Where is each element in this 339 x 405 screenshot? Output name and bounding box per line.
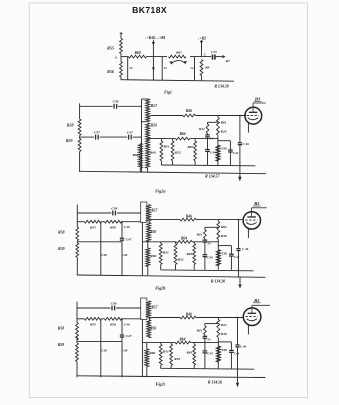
svg-text:R41: R41 bbox=[199, 127, 205, 131]
svg-text:R41: R41 bbox=[196, 232, 202, 236]
transformer shield box fig2c bbox=[141, 298, 147, 320]
svg-text:14: 14 bbox=[210, 136, 214, 140]
wire mid rail fig2a bbox=[80, 136, 94, 138]
resistor R64 fig2a bbox=[176, 137, 190, 140]
wire screen rail fig2c bbox=[142, 342, 175, 344]
wire mid rail fig2b bbox=[78, 241, 122, 243]
svg-text:C38: C38 bbox=[101, 349, 107, 353]
svg-text:R65: R65 bbox=[187, 145, 193, 149]
resistor R58 fig2c bbox=[76, 323, 79, 341]
capacitor C44 fig2a bbox=[229, 141, 231, 150]
wire grid tap hook fig2b bbox=[149, 220, 152, 224]
capacitor C38 dropper fig2b bbox=[100, 222, 102, 276]
svg-text:T30: T30 bbox=[221, 252, 227, 256]
wire grid rail fig2a bbox=[152, 115, 183, 117]
resistor R65 fig2a bbox=[194, 139, 196, 141]
svg-text:R50: R50 bbox=[150, 230, 156, 234]
inductor R60 fig2a bbox=[146, 142, 150, 168]
resistor R59 fig2c bbox=[76, 343, 79, 362]
capacitor 14 fig2a bbox=[207, 133, 209, 134]
svg-text:C47: C47 bbox=[127, 130, 133, 134]
svg-text:C38: C38 bbox=[101, 253, 107, 257]
resistor R56 fig2c bbox=[105, 317, 122, 320]
capacitor C12 left bbox=[127, 57, 129, 81]
resistor R46 fig2b bbox=[180, 218, 196, 221]
svg-text:C40: C40 bbox=[207, 256, 213, 260]
svg-text:B3: B3 bbox=[253, 298, 260, 303]
resistor R46 fig2c bbox=[180, 316, 196, 319]
inductor R50 fig2c bbox=[147, 320, 151, 338]
wire sub rail fig2c bbox=[161, 367, 255, 370]
wire grid tap hook fig2a bbox=[148, 116, 152, 120]
svg-text:C 46: C 46 bbox=[243, 142, 250, 146]
resistor R41 fig2b bbox=[204, 230, 207, 239]
svg-text:C58: C58 bbox=[113, 100, 119, 104]
wire screen rail fig2b bbox=[142, 241, 176, 243]
svg-text:R60: R60 bbox=[150, 151, 156, 155]
capacitor 14 fig2b bbox=[204, 239, 206, 240]
svg-text:14: 14 bbox=[207, 338, 211, 342]
svg-text:R55: R55 bbox=[107, 45, 114, 50]
svg-text:BK718X: BK718X bbox=[132, 5, 167, 15]
wire bottom rail fig2b bbox=[77, 275, 265, 277]
wire left vertical fig2c bbox=[76, 302, 78, 323]
svg-text:R46: R46 bbox=[186, 109, 192, 113]
svg-text:R55: R55 bbox=[90, 225, 96, 229]
resistor R52 fig2a bbox=[172, 139, 174, 141]
ground arrow fig2c bbox=[237, 377, 239, 383]
svg-text:R61: R61 bbox=[221, 225, 227, 229]
resistor R51 fig2c bbox=[160, 343, 162, 345]
capacitor C46b fig2c bbox=[237, 318, 239, 345]
wire grid lead fig2a bbox=[245, 115, 246, 117]
resistor R65 fig2c bbox=[193, 343, 195, 345]
wire C44 branch top fig2b bbox=[218, 245, 231, 247]
resistor R9 bbox=[200, 60, 203, 76]
wire R20 to coil fig2b bbox=[217, 239, 219, 249]
svg-text:R20: R20 bbox=[221, 129, 227, 133]
wire top rail fig2b bbox=[77, 212, 111, 214]
wire bottom rail fig1 bbox=[121, 80, 234, 82]
capacitor C38 dropper fig2c bbox=[100, 319, 102, 377]
resistor R51 fig2a bbox=[160, 139, 162, 141]
resistor R65 fig2b bbox=[193, 242, 195, 244]
svg-text:↓+B10–↓+B1: ↓+B10–↓+B1 bbox=[145, 36, 166, 40]
wire screen feed rail fig2c bbox=[77, 318, 84, 320]
capacitor C46 fig2b bbox=[238, 220, 240, 249]
svg-text:R65: R65 bbox=[187, 252, 193, 256]
svg-text:R41: R41 bbox=[196, 329, 202, 333]
capacitor C58 fig2a bbox=[113, 104, 115, 109]
wire left vertical bottom fig1 bbox=[120, 77, 122, 80]
wire bottom rail fig2c bbox=[77, 376, 265, 378]
resistor R55 fig2c bbox=[84, 317, 101, 320]
inductor R66 fig2c bbox=[146, 343, 148, 349]
svg-text:R51: R51 bbox=[163, 349, 169, 353]
svg-text:Fig2c: Fig2c bbox=[156, 381, 166, 386]
wire screen feed rail fig2b bbox=[77, 221, 84, 223]
wire +B10 branch lower bbox=[152, 57, 154, 81]
svg-text:Fig2a: Fig2a bbox=[155, 188, 165, 193]
svg-text:C40: C40 bbox=[124, 225, 130, 229]
wire grid rail fig2b bbox=[153, 219, 180, 221]
svg-text:R51: R51 bbox=[163, 251, 169, 255]
svg-text:R7: R7 bbox=[226, 59, 230, 63]
svg-text:R60: R60 bbox=[135, 51, 141, 55]
svg-text:C40: C40 bbox=[124, 322, 130, 326]
svg-text:R64: R64 bbox=[180, 132, 186, 136]
svg-text:R46: R46 bbox=[186, 312, 192, 316]
tube V3 fig2b bbox=[243, 212, 260, 229]
inductor R66 fig2a bbox=[138, 144, 142, 169]
svg-text:R9: R9 bbox=[205, 65, 209, 69]
resistor R64 fig2c bbox=[175, 341, 190, 344]
svg-text:C15: C15 bbox=[211, 50, 217, 54]
wire grid rail fig2c bbox=[153, 317, 180, 319]
node grid junction fig2c bbox=[237, 317, 239, 319]
capacitor C58 fig2b bbox=[112, 211, 114, 216]
resistor R20 fig2a bbox=[217, 126, 220, 135]
inductor T30 fig2c bbox=[216, 346, 219, 362]
svg-text:14: 14 bbox=[207, 242, 211, 246]
svg-text:R51: R51 bbox=[164, 145, 170, 149]
arrow +B10 feed bbox=[152, 40, 154, 57]
node grid junction fig2a bbox=[239, 115, 241, 117]
svg-text:C45: C45 bbox=[207, 352, 213, 356]
wire left vertical fig2b bbox=[76, 205, 78, 227]
svg-text:R20: R20 bbox=[221, 234, 227, 238]
capacitor C47 dropper fig2c bbox=[121, 319, 123, 334]
svg-text:R59: R59 bbox=[58, 343, 64, 347]
capacitor C15 bbox=[212, 54, 214, 59]
svg-text:↓+B2: ↓+B2 bbox=[198, 36, 206, 40]
wire cathode lead fig2c bbox=[247, 324, 249, 334]
wire left vertical top fig1 bbox=[120, 35, 122, 39]
wire sub rail fig2a bbox=[161, 164, 255, 167]
svg-text:R46: R46 bbox=[186, 215, 192, 219]
resistor R61 fig2a bbox=[217, 116, 219, 118]
svg-text:C57: C57 bbox=[94, 131, 100, 135]
svg-text:C 46: C 46 bbox=[242, 247, 249, 251]
svg-text:R58: R58 bbox=[67, 123, 74, 128]
capacitor C47 dropper fig2b bbox=[121, 222, 123, 238]
resistor R58 fig2b bbox=[76, 227, 79, 241]
svg-text:C58: C58 bbox=[111, 301, 117, 305]
svg-text:R50: R50 bbox=[151, 123, 157, 127]
wire screen rail fig2a bbox=[148, 138, 176, 140]
svg-text:R56: R56 bbox=[110, 323, 116, 327]
resistor R51 fig2b bbox=[160, 242, 162, 244]
svg-text:C47: C47 bbox=[126, 237, 132, 241]
resistor R64 fig2b bbox=[177, 240, 193, 243]
inductor R57 fig2a bbox=[146, 99, 150, 122]
svg-text:C58: C58 bbox=[111, 206, 117, 210]
resistor R56 bbox=[120, 62, 123, 78]
svg-text:R56: R56 bbox=[110, 225, 116, 229]
resistor R61 fig2b bbox=[217, 220, 219, 222]
page border frame bbox=[29, 3, 307, 398]
capacitor C45 fig2c bbox=[203, 350, 208, 352]
wire transformer centre line fig2b bbox=[141, 222, 143, 275]
wire R9 to rail bbox=[201, 76, 203, 81]
svg-text:R20: R20 bbox=[221, 332, 227, 336]
wire left vertical fig2a bbox=[79, 103, 81, 119]
svg-text:C48: C48 bbox=[122, 349, 128, 353]
transformer shield box fig2b bbox=[141, 202, 147, 222]
svg-text:R58: R58 bbox=[58, 327, 64, 331]
svg-text:C40: C40 bbox=[210, 150, 216, 154]
capacitor C12 right bbox=[194, 57, 196, 81]
svg-text:R66: R66 bbox=[132, 153, 138, 157]
capacitor C40b fig2b bbox=[203, 254, 208, 256]
wire top rail fig2c bbox=[77, 307, 111, 309]
svg-text:R 134.56: R 134.56 bbox=[208, 380, 222, 384]
resistor R55 bbox=[120, 39, 123, 54]
svg-text:R64: R64 bbox=[181, 237, 187, 241]
svg-text:R61: R61 bbox=[176, 51, 182, 55]
svg-text:B3: B3 bbox=[253, 201, 260, 206]
svg-text:C 46: C 46 bbox=[240, 345, 247, 349]
svg-text:T30: T30 bbox=[221, 147, 227, 151]
wire R20 to coil fig2c bbox=[217, 337, 219, 346]
svg-text:Fig2b: Fig2b bbox=[155, 285, 165, 290]
arrow +B2 feed bbox=[201, 40, 203, 56]
resistor R52 fig2b bbox=[175, 242, 177, 244]
capacitor C47 fig2a bbox=[128, 135, 130, 140]
inductor R66 fig2b bbox=[147, 242, 149, 248]
wire top rail fig1 bbox=[121, 56, 129, 58]
inductor R-61 variometer bbox=[169, 55, 187, 58]
svg-text:R66: R66 bbox=[150, 254, 156, 258]
svg-text:R 134.20: R 134.20 bbox=[211, 279, 225, 283]
capacitor C40 fig2a bbox=[205, 149, 210, 151]
inductor R57 fig2b bbox=[147, 205, 151, 221]
svg-text:R52: R52 bbox=[178, 257, 184, 261]
wire R41 stub fig2b bbox=[205, 226, 218, 228]
svg-text:Fig1: Fig1 bbox=[164, 90, 172, 95]
svg-text:R57: R57 bbox=[151, 305, 157, 309]
svg-text:12: 12 bbox=[164, 66, 168, 70]
resistor R21 fig2c bbox=[217, 318, 219, 320]
capacitor C12 mid bbox=[161, 57, 163, 81]
resistor R41 fig2c bbox=[204, 326, 207, 335]
svg-text:R 134.58: R 134.58 bbox=[214, 84, 228, 88]
capacitor 14 fig2c bbox=[204, 335, 206, 336]
svg-text:R57: R57 bbox=[151, 208, 157, 212]
svg-text:R57: R57 bbox=[151, 104, 157, 108]
wire C44 branch top fig2a bbox=[218, 140, 231, 142]
node grid junction fig2b bbox=[238, 219, 240, 221]
wire left vertical mid fig1 bbox=[120, 54, 122, 62]
wire cathode lead fig2a bbox=[247, 123, 249, 133]
wire R41 stub fig2a bbox=[208, 121, 218, 123]
capacitor C57 bbox=[95, 135, 97, 140]
node junction fig2c bbox=[121, 318, 123, 320]
svg-text:12: 12 bbox=[190, 66, 194, 70]
svg-text:R66: R66 bbox=[149, 351, 155, 355]
resistor R58 fig2a bbox=[78, 119, 81, 136]
svg-text:T30: T30 bbox=[221, 348, 227, 352]
svg-text:R61: R61 bbox=[221, 120, 227, 124]
wire cathode lead fig2b bbox=[247, 228, 249, 238]
resistor R60 bbox=[129, 55, 147, 58]
resistor R59 fig2a bbox=[78, 139, 81, 152]
resistor R59 fig2b bbox=[76, 243, 79, 257]
tube V4 fig2c bbox=[243, 308, 261, 326]
svg-text:R55: R55 bbox=[90, 323, 96, 327]
svg-text:B3: B3 bbox=[254, 96, 261, 101]
wire R20 to coil fig2a bbox=[217, 135, 219, 145]
svg-text:R59: R59 bbox=[58, 247, 64, 251]
resistor R20 fig2b bbox=[217, 230, 220, 239]
capacitor C58 fig2c bbox=[111, 306, 113, 311]
wire grid tap hook fig2c bbox=[149, 318, 152, 321]
svg-text:R64: R64 bbox=[179, 337, 185, 341]
wire R41 stub fig2c bbox=[205, 323, 218, 325]
wire mid rail fig2c bbox=[78, 340, 122, 342]
svg-text:R21: R21 bbox=[221, 323, 227, 327]
svg-text:C44: C44 bbox=[233, 151, 239, 155]
svg-text:C47: C47 bbox=[126, 334, 132, 338]
capacitor C44 fig2b bbox=[230, 246, 232, 254]
svg-text:C44: C44 bbox=[234, 351, 240, 355]
resistor R56 fig2b bbox=[105, 220, 122, 223]
inductor R50 fig2b bbox=[147, 223, 151, 242]
wire transformer primary line fig2a bbox=[141, 99, 143, 172]
resistor R41 fig2a bbox=[206, 124, 209, 133]
resistor R46 fig2a bbox=[183, 114, 195, 117]
svg-text:12: 12 bbox=[129, 66, 133, 70]
wire bottom rail fig2a bbox=[80, 171, 266, 173]
resistor R20 fig2c bbox=[217, 328, 220, 337]
inductor R57 fig2c bbox=[147, 301, 151, 318]
node junction fig2b bbox=[121, 221, 123, 223]
inductor T30 fig2b bbox=[216, 250, 219, 266]
svg-text:R 134.57: R 134.57 bbox=[205, 174, 220, 178]
ground arrow fig2b bbox=[239, 277, 241, 284]
svg-text:C48: C48 bbox=[122, 253, 128, 257]
wire transformer centre line fig2c bbox=[141, 320, 143, 378]
tube V2 fig2a bbox=[245, 107, 262, 124]
svg-text:R52: R52 bbox=[174, 357, 180, 361]
svg-text:R59: R59 bbox=[66, 138, 73, 143]
svg-text:R65: R65 bbox=[187, 351, 193, 355]
capacitor C44 fig2c bbox=[230, 342, 232, 350]
capacitor C46 fig2a bbox=[239, 116, 241, 143]
wire output fig1 bbox=[216, 56, 223, 58]
wire sub rail fig2b bbox=[161, 269, 254, 272]
node + (supply top, fig1) bbox=[120, 33, 123, 35]
ground arrow fig2a bbox=[239, 172, 241, 177]
inductor R50 fig2a bbox=[146, 123, 150, 142]
svg-text:R58: R58 bbox=[58, 230, 64, 234]
wire top rail fig2a bbox=[80, 105, 113, 107]
resistor R52 fig2c bbox=[170, 343, 172, 345]
svg-text:R50: R50 bbox=[150, 327, 156, 331]
svg-text:R56: R56 bbox=[107, 69, 114, 74]
svg-text:R52: R52 bbox=[175, 151, 181, 155]
resistor R55 fig2b bbox=[84, 220, 101, 223]
wire C44 branch top fig2c bbox=[218, 341, 231, 343]
inductor T30 fig2a bbox=[216, 145, 219, 161]
